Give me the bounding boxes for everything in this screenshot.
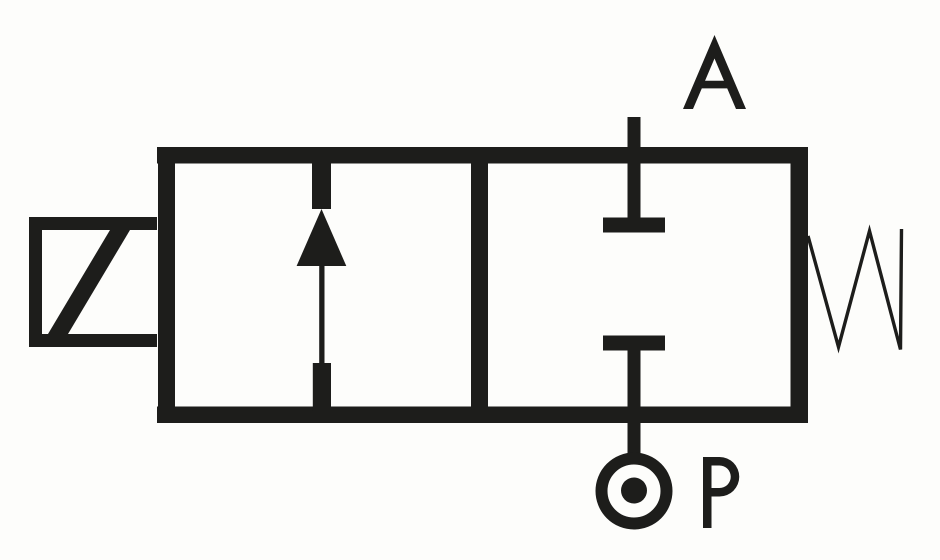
position divider — [471, 147, 488, 423]
port P source dot — [621, 478, 647, 504]
label A — [683, 35, 746, 109]
flow arrow head (position 1) — [297, 209, 347, 266]
solenoid diagonal stroke — [48, 230, 130, 334]
port A line — [628, 117, 641, 232]
port P line — [628, 336, 641, 455]
return spring — [808, 229, 902, 350]
port P source circle — [602, 459, 667, 524]
label P — [703, 457, 739, 528]
valve body (2-position envelope) — [157, 147, 808, 423]
check-valve top port stub (position 1) — [312, 155, 331, 209]
blocked port P crossbar (position 2) — [603, 336, 665, 351]
flow arrow shaft (position 1) — [319, 264, 324, 364]
check-valve bottom port stub (position 1) — [313, 363, 331, 411]
blocked port A crossbar (position 2) — [603, 218, 665, 233]
solenoid actuator box — [29, 217, 157, 347]
